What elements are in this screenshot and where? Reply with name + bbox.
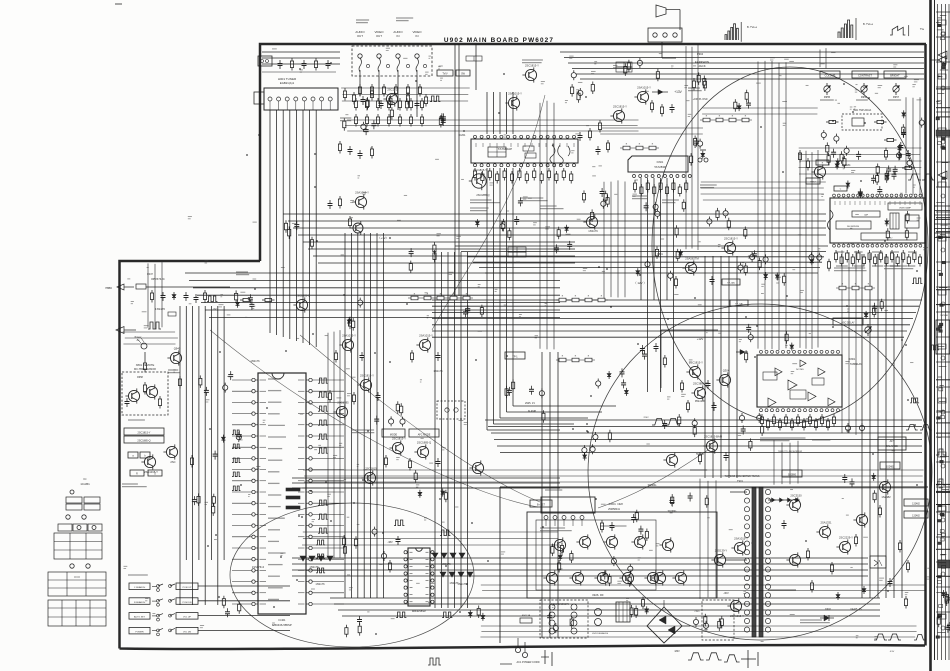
wire	[541, 352, 543, 638]
svg-text:R501: R501	[657, 254, 663, 256]
svg-text:2SA1015-Y: 2SA1015-Y	[144, 470, 158, 474]
transistor 2SC2229-Y	[836, 535, 853, 554]
resistor R	[873, 490, 876, 503]
wire	[193, 287, 560, 289]
resistor R	[760, 414, 763, 427]
resistor R	[650, 100, 653, 113]
resistor R	[540, 171, 543, 184]
label text	[540, 528, 572, 531]
net tag D902	[825, 608, 831, 611]
bridge rectifier D941	[647, 600, 690, 643]
resistor R	[394, 84, 397, 97]
capacitor C	[645, 259, 650, 269]
diode D	[607, 371, 611, 379]
wire	[397, 76, 399, 110]
net tag 1SS176	[433, 369, 443, 373]
adjacent waveform	[936, 449, 946, 455]
svg-text:IC601: IC601	[657, 161, 664, 164]
svg-text:POWER: POWER	[135, 632, 144, 634]
connector mark	[541, 650, 552, 666]
wire	[344, 233, 346, 598]
resistor R	[352, 392, 355, 405]
resistor R	[406, 84, 409, 97]
legend table	[54, 533, 102, 559]
capacitor C	[500, 221, 505, 231]
wire	[262, 63, 340, 65]
transistor Q	[811, 164, 825, 179]
resistor R	[577, 90, 580, 103]
resistor R	[409, 114, 412, 127]
resistor R	[937, 615, 940, 628]
svg-text:C928: C928	[617, 504, 623, 506]
label text	[800, 620, 830, 623]
capacitor C	[225, 608, 230, 617]
capacitor C	[946, 594, 950, 603]
capacitor C	[907, 158, 912, 168]
wire	[416, 76, 418, 117]
svg-text:BALANCE: BALANCE	[886, 445, 898, 448]
resistor R	[409, 261, 412, 274]
capacitor C	[223, 383, 228, 393]
svg-text:R956: R956	[861, 95, 868, 99]
waveform pulse	[888, 634, 901, 640]
label box POSI UP	[176, 583, 198, 590]
resistor R	[365, 98, 368, 111]
label box N SEARCH	[129, 598, 150, 605]
svg-text:2SC: 2SC	[170, 460, 175, 464]
net tag R501	[657, 254, 663, 256]
label text	[884, 266, 913, 269]
resistor R	[238, 601, 241, 614]
transistor 2SC1815-BAM	[703, 434, 722, 453]
transistor 2SD139-Y	[711, 548, 727, 567]
resistor R	[354, 114, 357, 127]
wire	[506, 168, 508, 412]
switch S8	[169, 628, 175, 631]
svg-text:TWP9098 CONVERTER TRANS: TWP9098 CONVERTER TRANS	[725, 475, 760, 478]
label text	[128, 574, 148, 576]
capacitor C	[655, 209, 660, 219]
capacitor C	[710, 276, 715, 285]
resistor R	[240, 298, 253, 301]
resistor R	[212, 503, 215, 516]
resistor chain	[836, 284, 875, 290]
waveform	[232, 458, 240, 463]
resistor chain	[408, 294, 473, 300]
svg-text:CAP: CAP	[864, 214, 869, 217]
capacitor C	[919, 118, 924, 128]
capacitor C	[539, 388, 544, 398]
label text	[520, 198, 548, 201]
transistor Q	[853, 512, 867, 527]
resistor R	[785, 331, 788, 344]
wire	[292, 575, 868, 577]
wire	[432, 311, 916, 313]
wire	[768, 589, 796, 591]
wire	[318, 262, 575, 264]
wire	[512, 92, 514, 134]
waveform	[318, 514, 328, 519]
resistor R	[222, 596, 225, 609]
resistor R	[338, 141, 341, 154]
switch S7	[169, 614, 175, 617]
net tag MB4058SP	[412, 609, 426, 613]
wire	[473, 261, 822, 263]
net tag C928	[617, 504, 623, 506]
svg-text:O O: O O	[74, 575, 80, 579]
resistor R	[480, 305, 483, 318]
capacitor C	[381, 551, 386, 561]
capacitor C	[463, 308, 468, 317]
wire	[185, 272, 560, 274]
sub-board 0926 RF	[527, 512, 717, 598]
wire	[640, 178, 642, 300]
capacitor C	[125, 398, 130, 407]
legend table	[48, 572, 106, 596]
transformer T901 core	[752, 487, 763, 637]
label text	[128, 419, 145, 421]
line filter coils	[549, 604, 577, 634]
wire bus	[906, 97, 920, 195]
scan smudge	[0, 0, 110, 250]
capacitor C	[631, 514, 636, 523]
resistor R	[503, 168, 506, 181]
label text	[268, 517, 285, 519]
resistor R	[551, 544, 554, 557]
capacitor C	[547, 612, 552, 621]
resistor R	[665, 184, 668, 197]
connector P001	[258, 56, 272, 66]
net tag 1SS184	[842, 164, 852, 167]
transistor 2SA1331	[816, 520, 832, 539]
svg-text:2SC1885-Q: 2SC1885-Q	[476, 194, 489, 197]
svg-text:2SA1015-Y: 2SA1015-Y	[355, 190, 369, 194]
resistor R	[798, 150, 801, 163]
wire	[189, 279, 560, 281]
capacitor C	[237, 431, 242, 440]
resistor R	[693, 425, 696, 438]
net tag 0A425. 1S	[850, 608, 862, 611]
wire	[292, 477, 560, 479]
transistor Q	[663, 452, 677, 467]
capacitor C	[872, 303, 877, 312]
svg-text:VOL UP: VOL UP	[183, 617, 191, 619]
net tag TA7680AP	[498, 147, 512, 151]
resistor R	[784, 414, 787, 427]
resistor R	[473, 168, 476, 181]
wire	[338, 609, 880, 611]
waveform	[318, 434, 328, 439]
resistor R	[907, 254, 910, 267]
label text	[836, 251, 844, 253]
IC ICB01 25M58041	[541, 497, 595, 526]
wire bus	[148, 262, 162, 329]
capacitor C	[698, 139, 703, 149]
diode row D901	[770, 498, 800, 502]
label text	[872, 251, 883, 253]
diode D	[902, 110, 906, 118]
net tag 1SS176	[315, 582, 325, 586]
wire	[487, 429, 560, 431]
net tag +/OK PL OSD	[693, 98, 708, 101]
wire	[728, 256, 730, 478]
diode array 1SS176	[440, 572, 473, 577]
transistor 2SC1815-Y	[721, 236, 738, 255]
wire	[488, 426, 922, 428]
resistor R	[749, 438, 752, 451]
transistor Q	[576, 534, 590, 549]
diode D	[418, 490, 422, 498]
capacitor C	[372, 527, 377, 537]
capacitor C	[194, 294, 199, 303]
wire	[726, 559, 747, 561]
diode D	[885, 173, 889, 181]
degauss coil L941	[592, 609, 609, 636]
wire	[491, 432, 922, 434]
transistor 2SC1815-Y	[469, 168, 487, 190]
svg-text:1SS176: 1SS176	[250, 359, 260, 363]
waveform	[428, 658, 441, 665]
curved wire	[210, 330, 538, 507]
label box SW	[456, 70, 470, 76]
svg-text:S82B90: S82B90	[788, 475, 797, 477]
label box S82B90	[782, 470, 802, 477]
resistor R	[591, 209, 594, 222]
resistor R	[876, 164, 879, 177]
wire	[901, 254, 903, 598]
net tag TRF1277 L1S2 AT93X42	[778, 450, 803, 453]
net tag 1SS176	[449, 581, 459, 585]
connector arrow	[116, 327, 136, 334]
svg-text:1SS176: 1SS176	[588, 229, 598, 233]
diode D	[475, 219, 479, 227]
wire	[497, 445, 922, 447]
net tag 1SS176	[457, 582, 467, 586]
svg-text:MB4058SP: MB4058SP	[412, 609, 426, 613]
capacitor C	[371, 120, 376, 129]
capacitor C	[886, 166, 891, 175]
resistor R	[635, 510, 638, 523]
wire	[712, 256, 714, 478]
capacitor C	[567, 241, 572, 250]
label text	[760, 438, 806, 441]
capacitor C	[856, 151, 861, 160]
resistor R	[570, 551, 573, 564]
transistor 2SC	[163, 444, 177, 464]
wire	[342, 615, 880, 617]
transistor 2SA1015-Y	[352, 190, 369, 209]
capacitor C	[514, 216, 519, 225]
capacitor C	[821, 130, 826, 140]
label text	[522, 60, 543, 63]
resistor R	[328, 390, 331, 403]
resistor R	[591, 82, 594, 95]
wire	[282, 110, 284, 337]
label text	[268, 587, 283, 589]
svg-text:POSI DN: POSI DN	[183, 602, 192, 604]
capacitor C	[817, 253, 822, 263]
wire bus	[820, 48, 826, 68]
capacitor C	[361, 122, 366, 132]
IC TA7283P	[628, 156, 691, 178]
resistor R	[692, 78, 695, 91]
svg-text:220V: 220V	[643, 417, 649, 419]
resistor R	[846, 250, 849, 263]
svg-text:HBBD: HBBD	[105, 287, 112, 290]
capacitor C	[834, 134, 839, 144]
capacitor C	[637, 58, 642, 68]
module H901 dashed	[842, 109, 882, 130]
switch S3	[152, 614, 163, 621]
svg-text:4.5V: 4.5V	[890, 651, 895, 653]
svg-text:T901: T901	[737, 479, 743, 483]
wire	[357, 233, 359, 598]
svg-text:2SC1815-Y: 2SC1815-Y	[473, 168, 487, 172]
transistor 2SA1015-Y	[141, 454, 158, 474]
svg-text:2SD139-Y: 2SD139-Y	[715, 548, 728, 552]
waveform	[318, 406, 328, 411]
svg-text:IC401: IC401	[279, 618, 286, 622]
resistor R	[645, 529, 648, 542]
IC201 interior	[488, 145, 570, 165]
svg-text:PRE AMP: PRE AMP	[695, 400, 706, 403]
capacitor C	[441, 117, 446, 126]
capacitor C	[723, 208, 728, 218]
wire	[283, 213, 826, 215]
resistor R	[826, 120, 839, 123]
resistor R	[512, 379, 515, 392]
net tag TWP9098 CONVERTER TRANS	[725, 475, 760, 478]
svg-text:H901 TMP-2010A: H901 TMP-2010A	[853, 109, 872, 112]
wire	[185, 306, 187, 560]
potentiometer R956	[861, 83, 868, 99]
net tag -30V	[723, 591, 729, 595]
wire	[493, 92, 495, 134]
capacitor C	[596, 146, 601, 155]
capacitor C	[831, 149, 836, 158]
label box 2SC1885-Q	[124, 436, 164, 443]
diode D	[810, 257, 814, 265]
diode D	[846, 181, 850, 189]
wire	[198, 615, 290, 617]
capacitor C	[601, 199, 606, 209]
net tag &#9001; 12V &#9002;	[633, 281, 646, 285]
capacitor C	[668, 271, 673, 281]
IC IC801 pins	[760, 350, 840, 411]
wire	[309, 110, 311, 345]
transistor 2SC1885-Q	[414, 440, 431, 459]
resistor R	[334, 350, 337, 363]
svg-text:+12V: +12V	[697, 337, 704, 341]
resistor R	[235, 290, 238, 303]
label box AUTO SET	[129, 613, 150, 620]
jack pin	[406, 64, 409, 67]
svg-text:AFC MODE: AFC MODE	[418, 434, 431, 437]
capacitor C	[439, 113, 444, 122]
svg-text:COLOUR: COLOUR	[825, 75, 836, 78]
resistor R	[796, 414, 799, 427]
preamp enclosure	[661, 330, 718, 388]
capacitor C	[376, 392, 381, 401]
capacitor C	[610, 522, 615, 531]
resistor R	[370, 84, 373, 97]
svg-text:R958: R958	[137, 376, 143, 379]
net tag &#9001;+12&#9002;	[377, 236, 388, 240]
resistor R	[698, 452, 701, 465]
label text	[268, 529, 280, 531]
resistor R	[772, 414, 775, 427]
wire	[647, 178, 649, 392]
wire bus	[480, 626, 916, 637]
resistor R	[608, 430, 611, 443]
transistor 1SS176	[583, 214, 598, 233]
waveform	[316, 540, 325, 545]
capacitor C	[600, 188, 605, 197]
resistor R	[389, 95, 392, 108]
resistor R	[345, 625, 348, 638]
diode D	[565, 225, 569, 233]
svg-text:R957: R957	[893, 95, 900, 99]
capacitor C	[703, 621, 708, 631]
resistor R	[477, 606, 480, 619]
capacitor C	[578, 132, 583, 141]
diode array 1SS176	[300, 556, 333, 561]
resistor R	[783, 273, 786, 286]
svg-text:1CB01: 1CB01	[608, 503, 616, 506]
wire	[461, 250, 826, 252]
diode D	[864, 311, 868, 319]
wire	[467, 256, 824, 258]
resistor R	[354, 536, 357, 549]
resistor chain	[700, 116, 752, 122]
transistor Q	[543, 570, 557, 585]
waveform sawtooth	[890, 25, 909, 36]
waveform	[910, 398, 919, 403]
wire	[179, 306, 181, 605]
resistor R	[558, 560, 561, 573]
legend table	[48, 600, 106, 626]
svg-text:2SA1015-Y: 2SA1015-Y	[734, 536, 748, 540]
wire	[315, 110, 317, 347]
waveform pulse	[688, 653, 704, 660]
resistor R	[832, 414, 835, 427]
capacitor C	[396, 536, 401, 545]
curved wire arc	[230, 503, 474, 647]
svg-text:TP-1(B): TP-1(B)	[727, 283, 735, 285]
label text	[540, 206, 564, 209]
capacitor C	[465, 305, 470, 314]
photo coupler PC901	[870, 556, 886, 568]
adjacent page texture	[936, 15, 949, 632]
resistor R	[913, 250, 916, 263]
svg-text:2SC1815-Y: 2SC1815-Y	[613, 104, 627, 108]
wire	[432, 305, 919, 307]
wire	[486, 168, 488, 430]
svg-text:VIDEO AMP: VIDEO AMP	[899, 207, 912, 210]
label text	[834, 268, 867, 271]
wire	[302, 110, 304, 343]
label box 132482	[904, 511, 928, 518]
switch S6	[169, 599, 175, 602]
resistor R	[370, 88, 373, 101]
wire	[432, 324, 910, 326]
label box 2SC1815-Y	[124, 428, 164, 435]
resistor R	[884, 138, 897, 141]
svg-text:OUT: OUT	[357, 34, 363, 38]
resistor R	[400, 403, 403, 416]
resistor R	[676, 249, 679, 261]
net tag PRE AMP	[695, 400, 706, 403]
